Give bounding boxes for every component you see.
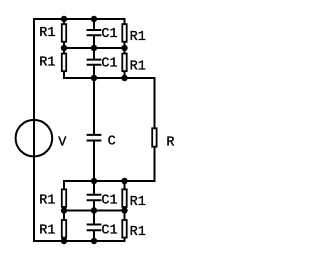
capacitor C1 row4 plates [87, 225, 102, 231]
junction node1 col C [121, 45, 127, 51]
wire column D [154, 78, 156, 181]
wire column C bottom [124, 181, 126, 241]
capacitor C1 row2 plates [87, 60, 102, 65]
svg-text:R1: R1 [39, 223, 55, 238]
wire column A bottom [63, 181, 65, 241]
resistor R1 row3 left [62, 189, 66, 207]
wire top rail [33, 18, 126, 20]
svg-text:R: R [166, 135, 174, 150]
svg-text:C1: C1 [101, 223, 117, 238]
resistor R1 row1 right [122, 24, 126, 42]
junction node3 col C [121, 178, 127, 184]
junction node1 col B [91, 45, 97, 51]
svg-text:R1: R1 [130, 30, 146, 45]
svg-text:R1: R1 [39, 26, 55, 41]
resistor R middle [152, 128, 156, 146]
junction bottom rail col B [91, 238, 97, 244]
capacitor C1 row3 plates [87, 195, 102, 201]
junction node2 col C [121, 75, 127, 81]
junction top rail col A [61, 16, 67, 22]
capacitor C middle plates [87, 135, 102, 141]
resistor R1 row4 right [122, 220, 126, 238]
capacitor C1 row1 plates [87, 30, 102, 35]
wire rail node3 [63, 180, 156, 182]
wire rail node4 [63, 210, 126, 212]
junction top rail col B [91, 16, 97, 22]
junction node3 col B [91, 178, 97, 184]
voltage source V1 [16, 120, 53, 157]
resistor R1 row1 left [62, 24, 66, 42]
resistor R1 row2 left [62, 54, 66, 72]
junction node2 col B [91, 75, 97, 81]
junction node4 col B [91, 207, 97, 213]
svg-text:C1: C1 [101, 193, 117, 208]
junction bottom rail col A [61, 238, 67, 244]
svg-text:V: V [58, 136, 67, 151]
svg-text:C1: C1 [101, 27, 117, 42]
svg-text:R1: R1 [39, 193, 55, 208]
junction node1 col A [61, 45, 67, 51]
wire column C top [124, 18, 126, 78]
junction node4 col A [61, 207, 67, 213]
wire rail node2 [63, 77, 156, 79]
resistor R1 row4 left [62, 220, 66, 238]
wire bottom rail [33, 240, 126, 242]
resistor R1 row2 right [122, 54, 126, 72]
wire column B segments [93, 18, 95, 241]
svg-text:R1: R1 [130, 195, 146, 210]
wire rail node1 [63, 47, 126, 49]
svg-text:C1: C1 [101, 56, 117, 71]
svg-text:C: C [108, 135, 116, 150]
svg-text:R1: R1 [130, 225, 146, 240]
wire column A top [63, 18, 65, 78]
resistor R1 row3 right [122, 189, 126, 207]
svg-text:R1: R1 [130, 60, 146, 75]
svg-text:R1: R1 [39, 56, 55, 71]
junction node4 col C [121, 207, 127, 213]
wire left rail [33, 18, 35, 242]
